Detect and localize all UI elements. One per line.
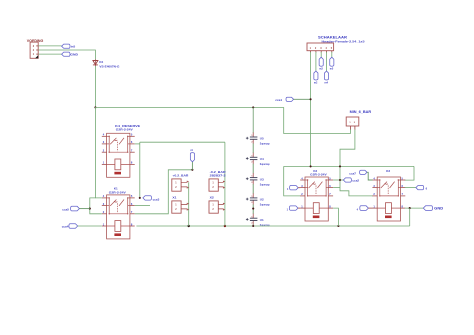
global label on pin5	[330, 57, 334, 70]
wire MIN_6_BAR pin1 down	[350, 129, 352, 133]
svg-text:X2: X2	[210, 196, 215, 200]
wire K1 pin7 to X-columns	[135, 170, 193, 214]
connector J1 VOEDING	[27, 39, 44, 59]
wire label stub	[191, 162, 193, 170]
connector X2	[209, 196, 225, 214]
svg-text:-0.2_BAR: -0.2_BAR	[210, 170, 227, 174]
diode D4 VS-E4007N-G	[93, 59, 120, 68]
node bottom rail X2 tap	[224, 225, 226, 227]
global label on K2 pin3	[287, 186, 298, 192]
wire K3 pin8 to GND	[405, 207, 424, 209]
svg-text:U4: U4	[260, 157, 264, 161]
wire y166 down to K2 pin2	[284, 166, 301, 196]
wire y166 down to K3 pin5	[405, 166, 415, 180]
wire K2 pin1 label	[298, 207, 300, 209]
wire cca1 to pin1 vertical	[294, 98, 311, 100]
svg-text:Supercap: Supercap	[260, 162, 270, 166]
wire X1 column vertical	[188, 182, 190, 226]
wire rail corner down to MIN_6_BAR	[284, 107, 351, 133]
global label cca7	[349, 170, 367, 175]
svg-text:cca1: cca1	[275, 98, 282, 102]
svg-text:cca7: cca7	[349, 171, 356, 175]
svg-text:G2R-2-24V: G2R-2-24V	[116, 128, 133, 132]
global label on pin4	[324, 71, 328, 84]
wire switch rail y166	[284, 165, 414, 167]
wire VOEDING pin1 to GND label	[38, 53, 61, 55]
node bottom rail supercap tap	[252, 225, 254, 227]
wire U1 to bottom rail	[252, 224, 254, 226]
wire K2 pin3 label	[298, 187, 300, 189]
wire K1 pin6 stub	[135, 205, 150, 207]
wire K4 pin6 link	[135, 143, 140, 145]
svg-text:Supercap: Supercap	[260, 182, 270, 186]
node cca5 junction	[89, 208, 91, 210]
svg-text:K3: K3	[386, 169, 390, 173]
connector SCHAKELAAR Header-Female-2.54_1x5	[307, 36, 365, 53]
svg-text:GND: GND	[434, 207, 444, 211]
wire rail to U5 supercap	[252, 107, 254, 133]
wire SCHAKELAAR pin4 stub	[326, 52, 328, 71]
wire U4 to U3	[252, 164, 254, 174]
wire D4 to main rail	[94, 66, 96, 107]
wire SCHAKELAAR pin1 long vertical	[310, 52, 312, 166]
wire SCHAKELAAR pin2 stub	[315, 52, 317, 71]
wire cca7 to K3 pin4	[367, 172, 373, 180]
connector X1	[172, 196, 189, 214]
svg-text:VS-E4007N-G: VS-E4007N-G	[99, 64, 120, 68]
node supercap top tap	[252, 106, 254, 108]
wire bottom rail	[136, 225, 409, 227]
node bottom rail K2 tap	[337, 225, 339, 227]
global label in5	[62, 44, 76, 48]
global label on pin2	[314, 71, 318, 84]
svg-text:U2: U2	[260, 198, 264, 202]
wire SCHAKELAAR pin3 stub	[320, 52, 322, 57]
wire K2 pin6 to loop	[333, 187, 340, 189]
svg-text:Supercap: Supercap	[260, 203, 270, 207]
global label GND right	[423, 206, 444, 211]
capacitor U5 Supercap	[246, 132, 270, 145]
wire X2 column vertical	[224, 142, 226, 226]
svg-text:GND: GND	[70, 53, 79, 57]
global label cca3	[143, 196, 160, 202]
svg-text:cca2: cca2	[352, 179, 359, 183]
wire GND drop to bottom rail	[409, 208, 411, 226]
svg-text:U1: U1	[260, 218, 264, 222]
svg-text:Supercap: Supercap	[260, 142, 270, 146]
wire branch to pin2 of K1	[90, 198, 102, 214]
node loop at K2 pin5	[339, 179, 341, 181]
svg-text:U3: U3	[260, 177, 264, 181]
node X-area label junction	[191, 169, 193, 171]
global label down-tag	[190, 149, 194, 162]
wire U5 to U4	[252, 144, 254, 154]
wire U3 to U2	[252, 184, 254, 194]
capacitor U3 Supercap	[246, 173, 270, 186]
wire cca5 to junction	[79, 208, 89, 210]
node cca1 junction	[310, 98, 312, 100]
wire U2 to U1	[252, 204, 254, 214]
node loop crosses y166	[339, 165, 341, 167]
global label cca2	[343, 178, 359, 183]
wire VOEDING pin2 to diode D4	[38, 50, 95, 59]
relay K3 G2R-2-24V	[372, 169, 405, 221]
node GND junction	[409, 207, 411, 209]
connector MIN_6_BAR	[346, 110, 372, 130]
wire K2 pin5 to cca2	[333, 179, 343, 181]
relay K1 G2R-2-24V	[102, 187, 135, 239]
svg-text:G2R-2-24V: G2R-2-24V	[310, 172, 327, 176]
svg-text:U5: U5	[260, 137, 264, 141]
node bottom rail X1 tap	[188, 225, 190, 227]
wire SCHAKELAAR pin5 stub	[331, 52, 333, 57]
svg-text:in5: in5	[71, 45, 76, 49]
node between U2 and U1	[252, 208, 254, 210]
relay K2 G2R-2-24V	[300, 169, 333, 221]
node K1 pin5 junction	[139, 197, 141, 199]
capacitor U4 Supercap	[246, 153, 270, 166]
wire K3 pin1 label	[368, 207, 372, 209]
wire K3 pin6 to label	[405, 187, 416, 189]
global label cca1	[275, 97, 293, 102]
wire VOEDING pin3 to in5 label	[38, 45, 61, 47]
wire main +rail horizontal	[95, 106, 283, 108]
connector +0.2_BAR	[172, 174, 190, 192]
wire MIN_6_BAR pin2 loop	[340, 129, 373, 196]
connector -0.2_BAR 282837-2	[209, 170, 227, 191]
svg-text:MIN_6_BAR: MIN_6_BAR	[350, 110, 372, 114]
svg-text:cca4: cca4	[62, 225, 69, 229]
global label on pin3	[319, 57, 323, 70]
capacitor U2 Supercap	[246, 193, 270, 206]
global label cca5	[62, 206, 79, 211]
global label on K3 pin1	[357, 206, 369, 212]
wire K4 pin6 down to K1 pin5	[139, 142, 141, 198]
global label on K2 pin1	[287, 206, 298, 212]
wire A-rail to X2 column	[140, 141, 225, 143]
svg-text:X1: X1	[172, 196, 177, 200]
node pin1-vertical meets y166	[310, 165, 312, 167]
global label on K3 pin6	[416, 186, 428, 191]
capacitor U1 Supercap	[246, 214, 270, 227]
node rail-left junction	[94, 106, 96, 108]
svg-text:G2R-2-24V: G2R-2-24V	[109, 190, 126, 194]
svg-text:cca5: cca5	[62, 207, 69, 211]
relay K4_RESERVE G2R-2-24V	[102, 124, 140, 177]
global label GND left	[62, 52, 79, 57]
global label cca4	[62, 224, 78, 229]
wire K2 pin8 to bottom rail	[333, 208, 338, 226]
svg-text:+0.2_BAR: +0.2_BAR	[172, 174, 189, 178]
wire cca4 to K1 pin1	[78, 225, 102, 227]
wire D4 rail down to K1 pin4	[95, 107, 101, 197]
svg-text:cca3: cca3	[153, 197, 160, 201]
